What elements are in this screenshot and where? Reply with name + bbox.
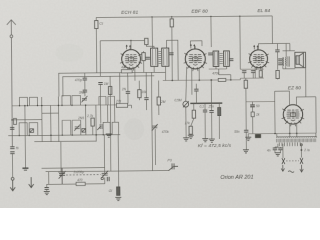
ground osc1 <box>106 134 112 137</box>
mains filter capacitor 2 <box>278 148 282 150</box>
tube EL84 <box>248 45 269 70</box>
mains prong 1 <box>281 165 284 171</box>
dial lamp resistor <box>117 187 120 196</box>
coil L1a <box>19 97 27 105</box>
adjustable core L5 <box>82 129 86 133</box>
ground left of fuse <box>247 134 249 137</box>
IF transformer 1 <box>151 48 169 66</box>
coil L6b <box>112 122 118 135</box>
speaker box <box>295 52 306 67</box>
core dashes IFT1 <box>158 51 161 63</box>
electrolytic cap <box>250 105 255 107</box>
resistor small row2 left <box>14 118 17 124</box>
wire EL84 pins down <box>254 67 256 78</box>
capacitor c1 <box>242 71 246 73</box>
resistor 470k lower <box>189 126 192 134</box>
ground under pot <box>185 107 187 137</box>
ground af1 <box>202 139 208 142</box>
capacitor 470p <box>83 78 87 80</box>
tube EZ80 <box>282 105 305 127</box>
ground af2 <box>209 139 215 142</box>
wire upper chassis line <box>42 167 105 170</box>
wire grid line y40 <box>100 39 144 41</box>
ground arrow second <box>29 177 34 188</box>
wire block bottom segment <box>34 140 96 143</box>
resistor 1M <box>109 76 112 134</box>
wire EZ80 heater pins <box>289 123 291 137</box>
switch pole 1 <box>282 158 285 164</box>
wire EZ80 plate right <box>296 97 315 106</box>
ground under 470k <box>188 135 194 138</box>
OT primary coil <box>283 57 286 66</box>
resistor cathode tube1 <box>142 53 145 61</box>
wire B+ rail <box>96 16 272 18</box>
wire gang verticals <box>151 72 154 170</box>
switch pole 2 <box>300 158 303 164</box>
AC symbol <box>288 171 294 173</box>
capacitor lower <box>83 90 87 92</box>
trimmer capacitor row2 <box>74 124 80 130</box>
transformer secondary winding <box>277 136 317 137</box>
coil L2a <box>62 96 71 106</box>
wire filter horizontal <box>246 100 275 102</box>
pickup connector <box>169 163 179 170</box>
tube EBF80 <box>183 44 206 71</box>
vertical wires inside coil block <box>24 106 27 168</box>
wire row1 baseline <box>12 104 118 107</box>
ground under block mid <box>58 172 64 175</box>
capacitor af2 <box>209 111 213 113</box>
wire mid horizontal in block <box>12 119 42 121</box>
wire IFT1 bottoms <box>153 66 155 72</box>
wire rail drop to IFT1 primary <box>151 17 153 48</box>
padder trimmer <box>152 124 158 131</box>
resistor 2k7 in coil block <box>91 118 94 126</box>
wire cluster top <box>240 68 263 70</box>
dashed switch link <box>286 160 299 162</box>
wire OT bottom <box>283 68 295 70</box>
resistor filter <box>244 80 247 88</box>
resistor under cap <box>251 112 254 117</box>
variable capacitor right <box>101 171 108 179</box>
wire cluster bottom <box>240 77 263 79</box>
wire IFT1 hook to tube2 grid <box>167 40 179 80</box>
OT core <box>287 56 289 66</box>
core dashes IFT2 <box>220 53 223 63</box>
coil L4a <box>19 123 27 136</box>
speaker cone <box>296 53 304 67</box>
wire bottom gang <box>47 183 76 185</box>
resistor r1 <box>259 71 262 78</box>
wire transformer taps <box>277 144 279 148</box>
capacitor IFT1 left <box>146 57 150 59</box>
resistor at left end of rail <box>95 17 97 20</box>
resistor screen dropper under rail <box>171 17 173 19</box>
wire tube2 anode jog <box>190 41 202 46</box>
wire AVC <box>163 79 241 82</box>
coil L6a <box>103 122 110 135</box>
resistor anode chain <box>145 38 148 44</box>
wire y76 <box>63 76 155 97</box>
resistor x139.5 <box>138 81 140 90</box>
shielded lead heavy bar <box>190 102 222 104</box>
dashed gang link <box>66 174 100 176</box>
transformer primary taps <box>279 142 300 146</box>
resistor af3 dark <box>218 107 221 115</box>
wire PSU top <box>248 132 316 135</box>
wire secondary ends <box>276 133 278 137</box>
capacitor IFT1 right <box>169 53 173 55</box>
junction dots on rail <box>151 15 240 17</box>
resistor osc horizontal <box>116 103 127 107</box>
mains filter capacitor 1 <box>273 148 277 150</box>
coil L1b <box>29 97 37 105</box>
wire mid horizontal 2 <box>42 112 59 114</box>
tube ECH81 <box>120 45 142 71</box>
mains prong 2 <box>300 165 303 172</box>
capacitor IFT2 right <box>229 59 233 61</box>
wire tube2 pins down <box>191 68 193 94</box>
capacitor IFT2 left <box>208 53 212 55</box>
resistor 470k on AVC line <box>218 78 226 81</box>
ground under block left <box>22 167 28 169</box>
paper stain (decorative) <box>124 118 144 140</box>
connector circle <box>11 177 14 180</box>
ground mains filter <box>274 150 276 153</box>
capacitor gang bottom <box>107 177 109 181</box>
capacitor tone at 246 <box>244 130 248 132</box>
coil L3b <box>108 96 115 105</box>
wire row2 baseline <box>8 134 120 137</box>
wire chassis line <box>46 171 169 172</box>
capacitor on x100.7 <box>98 82 102 84</box>
capacitor cluster tone <box>278 59 282 61</box>
input connector arrow <box>97 124 102 130</box>
capacitor antenna lower <box>10 152 14 154</box>
capacitor on antenna line in row2 <box>10 127 14 129</box>
antenna <box>7 20 17 147</box>
coil L5a <box>62 120 71 135</box>
capacitor antenna series <box>10 147 14 149</box>
connector circle gang <box>101 177 103 179</box>
capacitor c2 <box>251 71 255 73</box>
fuse <box>255 134 261 137</box>
coil L4b <box>29 123 38 136</box>
capacitor near OT <box>275 50 279 52</box>
wire filter vertical <box>274 91 276 133</box>
IF transformer 2 <box>213 51 229 67</box>
resistor near OT <box>276 70 279 78</box>
wire rail drop to IFT2 <box>210 16 212 47</box>
wire IFT2 bottoms <box>215 66 217 69</box>
junction dots coil block <box>11 104 111 136</box>
capacitor af1 <box>203 110 207 112</box>
wire gang left vertical <box>48 172 50 185</box>
voltage selector <box>300 144 302 146</box>
wire EZ80 plate left <box>275 91 290 105</box>
resistor horizontal on y72 line <box>121 70 132 73</box>
wire rail right corner down <box>272 16 290 44</box>
trimmer capacitor row1 <box>81 96 87 102</box>
wire osc vertical x120 <box>119 73 121 106</box>
wire EL84 anode up <box>258 44 272 50</box>
variable capacitor left <box>59 168 66 184</box>
transformer laminations comb <box>277 138 316 142</box>
capacitor + ground left <box>45 187 49 189</box>
capacitor osc x128 <box>127 76 129 91</box>
wire y72 <box>59 72 166 96</box>
resistor 470k AF <box>192 110 195 118</box>
coil L2b <box>72 95 81 105</box>
coil L5b <box>72 120 81 135</box>
ground arrow antenna <box>10 180 15 191</box>
resistor 470 horizontal <box>76 182 85 185</box>
coil L3a <box>99 96 106 105</box>
wire rail drop to EL84 grid area <box>239 16 241 69</box>
wire OT top <box>283 50 295 52</box>
wire OT feeds <box>285 43 287 57</box>
capacitor x146.5 <box>145 72 147 97</box>
wire speaker box down <box>305 68 307 97</box>
adjustable core L4 <box>30 129 34 133</box>
capacitor on AVC drop <box>194 89 198 91</box>
wire right edge down <box>315 97 317 133</box>
wire tube1 pins down <box>126 68 128 76</box>
resistor 2M vertical <box>158 81 160 97</box>
